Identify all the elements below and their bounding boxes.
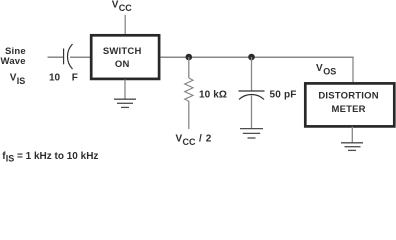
wire C1 to switch box	[70, 56, 90, 58]
svg-text:2: 2	[206, 133, 212, 144]
svg-text:F: F	[72, 72, 78, 83]
ground under switch box	[114, 99, 136, 107]
svg-text:IS: IS	[6, 153, 15, 162]
svg-text:V: V	[10, 73, 17, 84]
svg-text:/: /	[199, 133, 202, 144]
svg-text:= 1 kHz to 10 kHz: = 1 kHz to 10 kHz	[17, 151, 98, 162]
net label VCC/2	[176, 133, 212, 147]
resistor R1 10 kOhm	[185, 78, 193, 101]
junction node B (rail / C2)	[248, 54, 255, 61]
svg-text:METER: METER	[331, 104, 365, 115]
ground under meter box	[341, 143, 363, 151]
wire C2 to ground	[251, 96, 253, 129]
note fIS = 1 kHz to 10 kHz	[2, 151, 98, 164]
switch block U1 SWITCH ON	[91, 35, 159, 79]
svg-text:IS: IS	[17, 76, 26, 86]
svg-text:ON: ON	[115, 59, 130, 70]
capacitor C1	[64, 44, 73, 69]
wire VCC stub into switch box	[124, 15, 126, 35]
svg-text:10: 10	[49, 72, 61, 83]
wire node A down to R1	[188, 57, 190, 78]
capacitor C2 50 pF	[239, 91, 265, 100]
svg-text:10 kΩ: 10 kΩ	[199, 90, 227, 101]
svg-text:50 pF: 50 pF	[270, 90, 297, 101]
ground under C2	[240, 129, 263, 138]
power VCC label	[112, 0, 132, 13]
meter block DISTORTION METER	[305, 83, 394, 126]
wire input to C1	[48, 56, 64, 58]
net label VOS	[316, 63, 336, 77]
junction node A (rail / R1)	[186, 54, 193, 61]
wire meter box bottom to ground	[351, 127, 353, 143]
wire R1 to VCC/2	[188, 101, 190, 129]
svg-text:OS: OS	[323, 67, 336, 77]
svg-text:CC: CC	[119, 3, 132, 13]
wire node B down to C2	[251, 57, 253, 91]
svg-text:V: V	[316, 63, 323, 74]
svg-text:DISTORTION: DISTORTION	[318, 91, 378, 102]
svg-text:V: V	[112, 0, 119, 11]
svg-text:CC: CC	[183, 137, 196, 147]
node VIS source label (Sine Wave / VIS)	[1, 46, 26, 86]
svg-text:V: V	[176, 133, 183, 144]
wire switch box bottom to ground	[124, 80, 126, 100]
svg-text:Wave: Wave	[1, 56, 26, 67]
svg-text:SWITCH: SWITCH	[103, 46, 142, 57]
wire output rail from switch to corner and down to meter	[160, 56, 353, 58]
